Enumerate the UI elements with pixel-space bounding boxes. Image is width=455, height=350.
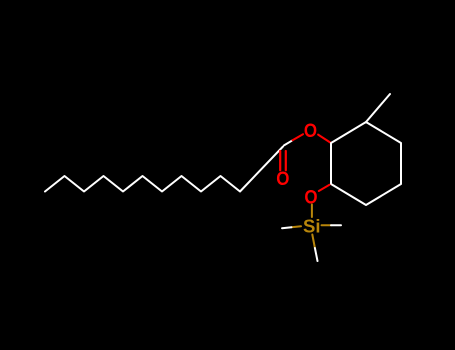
- wire Si methyl bond left: [292, 225, 302, 228]
- svg-text:O: O: [304, 120, 317, 142]
- wire cyclohexane ring: [331, 122, 401, 205]
- wire C=O double bond: [280, 151, 286, 170]
- wire bond carbonyl C to ester O (red half): [293, 134, 304, 140]
- wire methyl substituent on ring: [366, 94, 390, 122]
- wire bond O to Si: [311, 205, 313, 218]
- wire bond ring C2 to silyl O: [319, 185, 330, 191]
- wire alkyl chain zigzag C1-C11: [45, 147, 283, 192]
- wire bond ester O to ring C1: [318, 135, 331, 143]
- wire bond carbonyl C to ester O (white half): [284, 140, 293, 145]
- wire Si methyl bond down: [312, 235, 315, 249]
- svg-text:Si: Si: [303, 216, 320, 237]
- svg-text:O: O: [276, 168, 289, 190]
- wire Si methyl bond right: [322, 224, 332, 226]
